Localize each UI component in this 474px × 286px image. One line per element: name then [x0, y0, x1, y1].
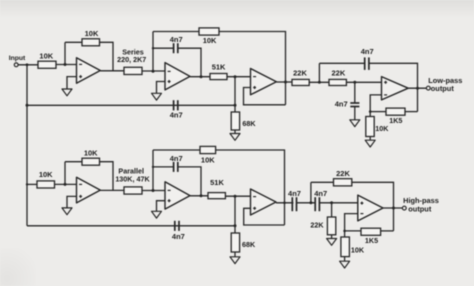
- wire 10K divider to ground lower: [344, 257, 346, 262]
- wire top rail upper right: [219, 32, 286, 105]
- wire U2 output to R 51K: [190, 75, 210, 78]
- wire 22K feedback up branch: [310, 182, 312, 203]
- svg-text:4n7: 4n7: [170, 154, 183, 163]
- wire 1K5 to output vertical lower: [381, 230, 394, 232]
- wire series resistor to U2 node: [142, 70, 165, 73]
- op-amp U7: [251, 189, 277, 215]
- capacitor C 4n7 series first: [288, 189, 301, 211]
- wire 22K to U4 input: [346, 81, 381, 84]
- wire cap2 to U8 input: [319, 201, 357, 204]
- op-amp U5: [77, 177, 101, 203]
- wire 51K to L3 inverting input: [225, 195, 250, 198]
- svg-text:10K: 10K: [85, 29, 99, 38]
- label low-pass output: [428, 76, 462, 93]
- wire R1 to U1 inverting input: [56, 63, 77, 66]
- wire 68K branch upper: [234, 77, 236, 112]
- ground below U5: [62, 208, 72, 215]
- wire shunt cap branch: [354, 82, 356, 103]
- resistor R 10K top rail lower: [200, 146, 216, 164]
- wire U7 positive feedback: [244, 208, 285, 225]
- op-amp U3: [251, 69, 277, 95]
- svg-text:51K: 51K: [210, 178, 224, 187]
- wire bottom rail lower: [27, 224, 237, 227]
- wire node to top rail lower: [152, 150, 154, 191]
- capacitor C 4n7 series second: [314, 189, 327, 211]
- wire U1 output to series resistor: [100, 70, 124, 72]
- ground below 68K upper: [230, 134, 240, 141]
- resistor R 10K top rail upper: [199, 28, 219, 45]
- wire top rail lower left: [153, 149, 200, 151]
- ground below 10K divider upper: [365, 140, 375, 147]
- wire between series caps: [297, 201, 316, 204]
- wire top rail lower right: [216, 150, 285, 225]
- wire U3 output: [276, 81, 292, 84]
- svg-text:10K: 10K: [84, 148, 98, 157]
- wire 22K shunt to ground: [331, 235, 333, 239]
- wire U8 inverting to junction: [345, 214, 358, 237]
- svg-text:10K: 10K: [375, 124, 389, 133]
- resistor R 51K lower: [208, 178, 225, 199]
- svg-text:10K: 10K: [201, 155, 215, 164]
- wire input to R1: [18, 64, 38, 66]
- svg-text:1K5: 1K5: [389, 116, 402, 125]
- svg-text:Input: Input: [9, 55, 26, 62]
- resistor R 22K feedback lower: [334, 169, 352, 186]
- wire 1K5 to output vertical: [405, 111, 418, 113]
- ground below 22K shunt: [327, 239, 337, 246]
- wire cap feedback top right: [369, 63, 418, 111]
- resistor R 1K5 lower: [361, 228, 381, 245]
- svg-text:10K: 10K: [39, 170, 53, 179]
- capacitor C 4n7 bottom rail upper: [170, 100, 183, 119]
- wire U4 output: [408, 87, 426, 90]
- wire U4 inverting to junction: [370, 95, 381, 117]
- wire 51K to U3 inverting input: [227, 75, 251, 78]
- wire 22K feedback top left: [311, 181, 334, 183]
- resistor R 68K lower: [231, 233, 256, 252]
- node feedback junction U4: [369, 110, 372, 113]
- wire feedback top U1: [65, 41, 82, 43]
- ground below U6: [152, 211, 162, 218]
- wire 68K to ground lower: [234, 252, 236, 257]
- op-amp U8: [358, 195, 383, 221]
- wire U8 output: [383, 207, 402, 210]
- ground below 68K lower: [230, 257, 240, 264]
- wire rail to R1 lower: [27, 183, 37, 185]
- svg-text:output: output: [408, 204, 432, 213]
- ground below U1: [62, 89, 72, 96]
- resistor R 10K input lower: [37, 170, 55, 188]
- svg-text:10K: 10K: [203, 36, 217, 45]
- resistor R 68K upper: [231, 112, 256, 130]
- ground below shunt cap upper: [350, 120, 360, 127]
- wire L2 cap to output: [178, 167, 201, 196]
- svg-text:10K: 10K: [351, 245, 365, 254]
- ground below 10K divider lower: [340, 261, 350, 268]
- svg-text:22K: 22K: [336, 169, 350, 178]
- wire bottom rail upper: [27, 104, 237, 107]
- capacitor C 4n7 shunt upper: [335, 100, 360, 109]
- resistor R 51K upper: [210, 63, 227, 80]
- wire U2 cap to output: [178, 48, 201, 76]
- wire 10K divider to ground: [369, 137, 371, 141]
- wire feedback top L1: [65, 161, 82, 163]
- op-amp U6: [165, 182, 190, 209]
- node high-pass output terminal: [402, 206, 406, 210]
- resistor R 1K5 upper: [386, 108, 405, 125]
- wire 22K junction: [309, 81, 329, 84]
- capacitor C 4n7 bottom rail lower: [172, 221, 185, 241]
- svg-text:10K: 10K: [39, 52, 53, 61]
- svg-text:4n7: 4n7: [170, 111, 183, 120]
- wire shunt cap to ground: [354, 107, 356, 120]
- svg-text:68K: 68K: [242, 119, 256, 128]
- wire node to top rail upper: [152, 32, 154, 72]
- svg-text:4n7: 4n7: [314, 189, 327, 198]
- svg-text:22K: 22K: [310, 220, 324, 229]
- capacitor C 4n7 feedback U6: [170, 154, 183, 172]
- svg-text:130K, 47K: 130K, 47K: [115, 174, 150, 183]
- ground below U2: [152, 93, 162, 100]
- node: input terminal: [9, 55, 26, 67]
- resistor R 10K divider lower: [341, 237, 365, 257]
- wire U1 plus to ground: [67, 77, 77, 89]
- svg-text:4n7: 4n7: [288, 189, 301, 198]
- svg-text:4n7: 4n7: [170, 35, 183, 44]
- svg-text:22K: 22K: [332, 68, 346, 77]
- wire U2 cap branch: [152, 47, 174, 49]
- op-amp U1: [77, 58, 101, 84]
- svg-text:68K: 68K: [242, 240, 256, 249]
- wire L2 plus to ground: [157, 201, 166, 212]
- svg-text:output: output: [431, 84, 455, 93]
- wire feedback left vertical U1: [64, 42, 66, 64]
- wire 22K shunt branch: [331, 203, 333, 217]
- wire L2 cap branch: [152, 166, 174, 168]
- resistor R 10K divider upper: [366, 117, 389, 137]
- wire feedback left vertical L1: [64, 162, 66, 185]
- svg-text:4n7: 4n7: [172, 232, 185, 241]
- svg-text:220, 2K7: 220, 2K7: [117, 55, 146, 64]
- wire L1 plus to ground: [67, 196, 77, 208]
- svg-text:4n7: 4n7: [361, 47, 374, 56]
- wire R1 to L1 inverting input: [55, 183, 77, 186]
- wire L2 output to R 51K: [190, 194, 208, 197]
- wire U2 plus to ground: [157, 82, 166, 94]
- node low-pass output terminal: [426, 86, 430, 90]
- label high-pass output: [403, 196, 439, 214]
- svg-text:51K: 51K: [212, 63, 226, 72]
- resistor R Parallel 130K 47K: [115, 167, 150, 194]
- resistor R 22K first upper: [292, 68, 309, 85]
- wire cap feedback up branch: [318, 63, 320, 82]
- wire input vertical rail: [26, 63, 29, 225]
- svg-text:1K5: 1K5: [365, 236, 378, 245]
- wire U3 positive feedback: [244, 88, 286, 105]
- capacitor C 4n7 feedback U4: [361, 47, 374, 70]
- wire parallel resistor to L2 node: [142, 189, 165, 192]
- wire feedback right U1: [100, 42, 114, 70]
- wire feedback right L1: [100, 162, 114, 191]
- wire U7 output to caps: [276, 202, 293, 205]
- resistor R 10K feedback L1: [82, 148, 100, 165]
- resistor R 22K second upper: [329, 68, 346, 85]
- wire L1 output to parallel resistor: [100, 189, 124, 191]
- resistor R 10K feedback U1: [82, 29, 100, 46]
- resistor R 22K shunt lower: [310, 217, 335, 235]
- svg-text:4n7: 4n7: [335, 100, 348, 109]
- capacitor C 4n7 feedback U2: [170, 35, 183, 53]
- wire cap feedback top left: [319, 62, 364, 64]
- wire top rail upper left: [153, 31, 199, 33]
- op-amp U2: [165, 63, 190, 90]
- wire 68K to ground upper: [234, 130, 236, 134]
- svg-text:22K: 22K: [293, 68, 307, 77]
- node feedback junction U8: [343, 230, 346, 233]
- wire 22K feedback top right: [352, 182, 394, 231]
- resistor R Series 220 2K7: [117, 47, 146, 74]
- wire junction to 1K5: [370, 111, 386, 113]
- op-amp U4: [382, 77, 409, 100]
- wire junction to 1K5 lower: [345, 230, 361, 232]
- wire 68K branch lower: [234, 196, 236, 233]
- resistor R 10K input upper: [38, 52, 56, 69]
